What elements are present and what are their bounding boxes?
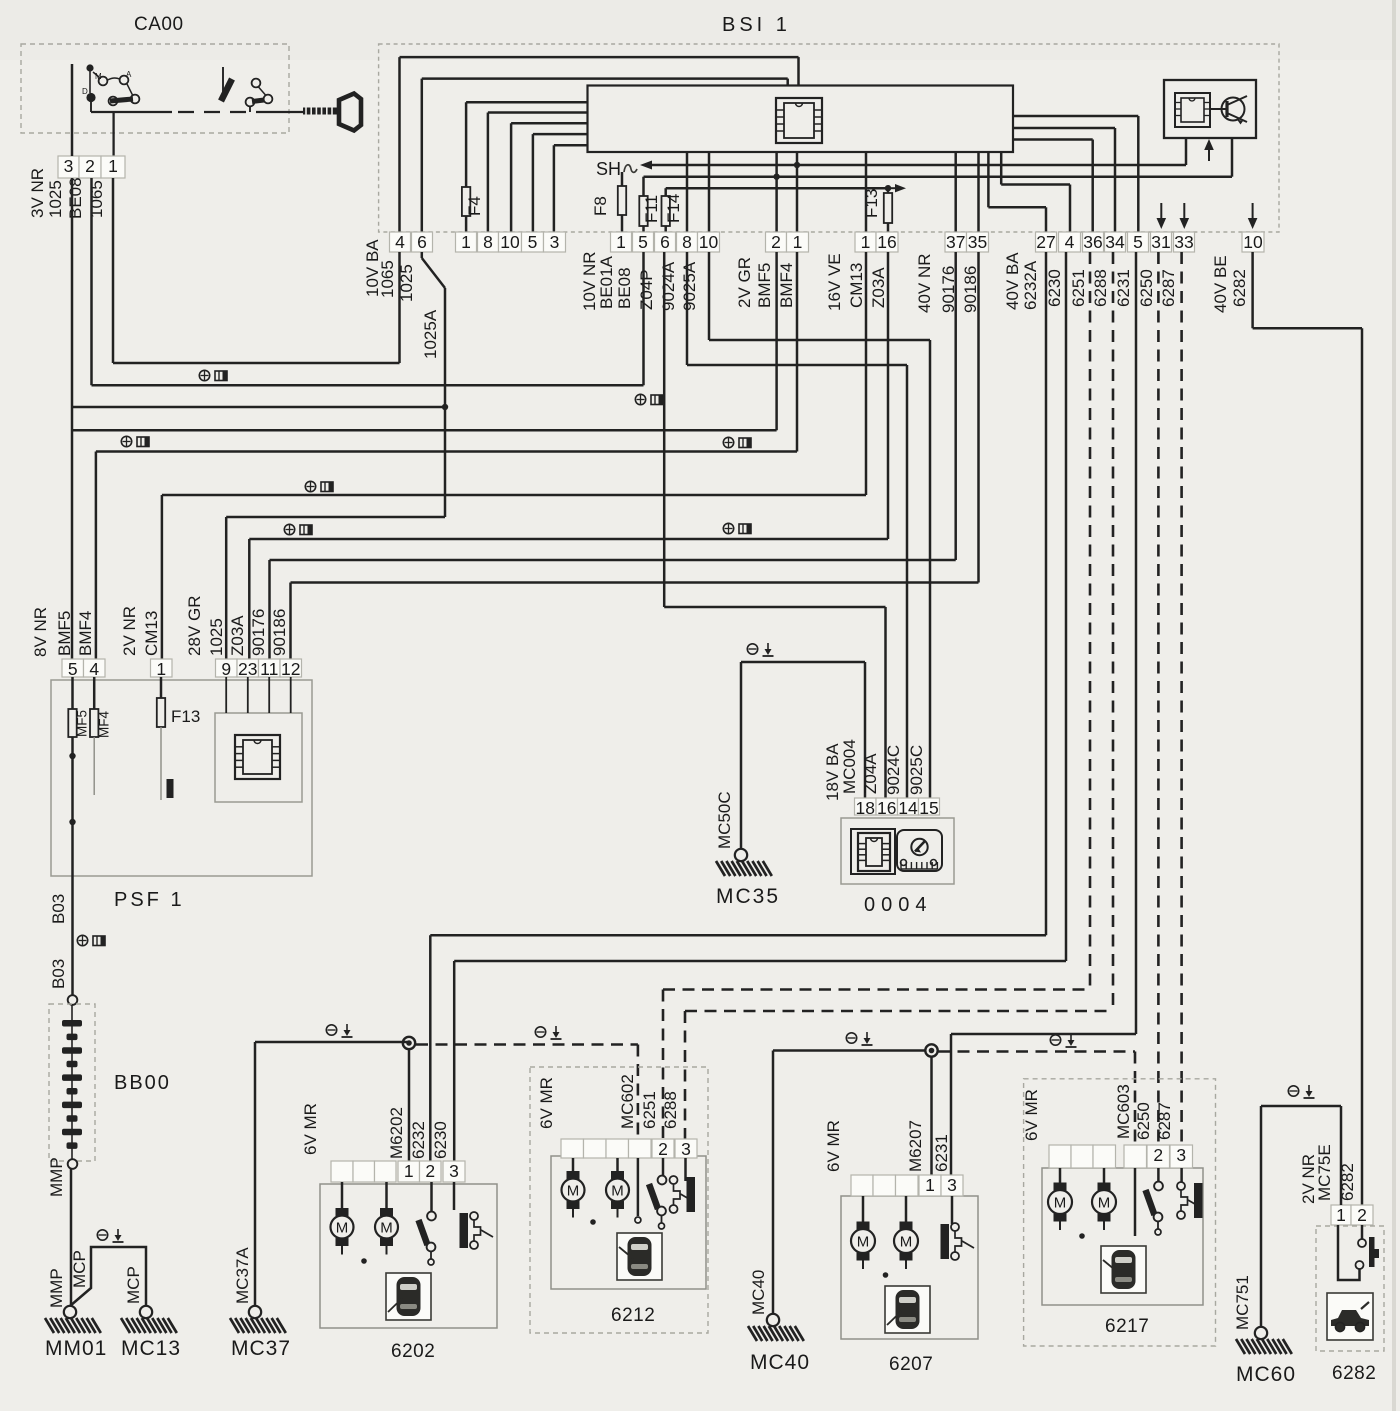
svg-text:2: 2 (85, 156, 95, 176)
svg-text:8V NR: 8V NR (31, 607, 50, 657)
svg-text:3: 3 (947, 1175, 957, 1195)
svg-text:BMF5: BMF5 (55, 611, 74, 656)
svg-text:MC35: MC35 (716, 885, 780, 908)
svg-text:6202: 6202 (391, 1341, 435, 1362)
svg-text:2: 2 (425, 1161, 435, 1181)
svg-text:6V MR: 6V MR (301, 1103, 320, 1155)
svg-text:6230: 6230 (1045, 269, 1064, 307)
svg-text:8: 8 (483, 232, 493, 252)
svg-text:9025C: 9025C (907, 745, 926, 795)
svg-text:BSI 1: BSI 1 (722, 14, 791, 36)
svg-text:M6202: M6202 (387, 1107, 406, 1159)
svg-text:6V MR: 6V MR (1022, 1089, 1041, 1141)
svg-text:40V NR: 40V NR (915, 253, 934, 313)
svg-text:SH: SH (596, 159, 621, 179)
svg-text:BMF5: BMF5 (755, 263, 774, 308)
svg-text:1: 1 (861, 232, 871, 252)
svg-text:MM01: MM01 (45, 1337, 107, 1360)
svg-text:8: 8 (682, 232, 692, 252)
svg-text:15: 15 (919, 798, 938, 818)
svg-text:9025A: 9025A (680, 261, 699, 311)
svg-text:Z04A: Z04A (861, 753, 880, 794)
svg-text:33: 33 (1174, 232, 1193, 252)
svg-text:9024A: 9024A (659, 261, 678, 311)
svg-text:36: 36 (1083, 232, 1102, 252)
svg-text:6288: 6288 (1091, 269, 1110, 307)
svg-text:5: 5 (528, 232, 538, 252)
svg-text:M: M (1098, 1195, 1111, 1212)
svg-text:5: 5 (68, 659, 78, 679)
svg-text:1: 1 (156, 659, 166, 679)
svg-text:F4: F4 (465, 196, 484, 216)
svg-text:M6207: M6207 (906, 1120, 925, 1172)
svg-text:11: 11 (260, 659, 278, 679)
svg-text:6231: 6231 (1114, 269, 1133, 307)
svg-text:MC40: MC40 (750, 1351, 810, 1374)
svg-text:9: 9 (221, 659, 231, 679)
svg-text:Z03A: Z03A (228, 615, 247, 656)
svg-text:MMP: MMP (47, 1268, 66, 1308)
svg-text:6232: 6232 (409, 1121, 428, 1159)
svg-text:F8: F8 (591, 196, 610, 216)
svg-text:1025: 1025 (46, 180, 65, 218)
svg-text:40V BE: 40V BE (1211, 255, 1230, 313)
svg-text:6212: 6212 (611, 1305, 655, 1326)
svg-text:CM13: CM13 (847, 263, 866, 308)
svg-text:MC37: MC37 (231, 1337, 291, 1360)
svg-text:6231: 6231 (932, 1134, 951, 1172)
svg-text:B03: B03 (49, 959, 68, 989)
svg-text:1: 1 (108, 156, 118, 176)
svg-text:F11: F11 (642, 195, 661, 223)
svg-text:90186: 90186 (270, 609, 289, 656)
svg-text:0004: 0004 (864, 894, 933, 916)
svg-text:MC75E: MC75E (1315, 1144, 1334, 1201)
svg-text:PSF 1: PSF 1 (114, 889, 185, 911)
svg-text:3: 3 (449, 1161, 459, 1181)
svg-text:M: M (95, 72, 102, 81)
svg-text:6250: 6250 (1137, 269, 1156, 307)
svg-text:6287: 6287 (1159, 269, 1178, 307)
svg-text:10: 10 (699, 232, 719, 252)
svg-text:2: 2 (658, 1139, 668, 1159)
svg-text:31: 31 (1151, 232, 1170, 252)
svg-text:27: 27 (1036, 232, 1055, 252)
svg-text:F14: F14 (664, 194, 683, 223)
svg-text:9024C: 9024C (884, 745, 903, 795)
svg-text:6230: 6230 (431, 1121, 450, 1159)
svg-text:6250: 6250 (1134, 1102, 1153, 1140)
svg-text:6282: 6282 (1332, 1363, 1376, 1384)
svg-text:M: M (336, 1220, 349, 1237)
svg-text:2V GR: 2V GR (735, 257, 754, 308)
svg-text:35: 35 (968, 232, 987, 252)
svg-text:5: 5 (638, 232, 648, 252)
svg-text:3: 3 (681, 1139, 691, 1159)
svg-text:90176: 90176 (249, 609, 268, 656)
svg-text:1: 1 (1336, 1205, 1346, 1225)
svg-text:M: M (900, 1234, 913, 1251)
svg-text:1025A: 1025A (421, 309, 440, 359)
svg-text:2: 2 (1357, 1205, 1367, 1225)
svg-text:MC37A: MC37A (233, 1247, 252, 1304)
svg-text:BMF4: BMF4 (777, 263, 796, 308)
svg-text:MC13: MC13 (121, 1337, 181, 1360)
svg-text:4: 4 (89, 659, 99, 679)
svg-text:16: 16 (877, 232, 896, 252)
svg-text:M: M (1054, 1195, 1067, 1212)
svg-text:2: 2 (771, 232, 781, 252)
svg-text:6287: 6287 (1155, 1102, 1174, 1140)
svg-text:6: 6 (660, 232, 670, 252)
svg-text:M: M (857, 1234, 870, 1251)
svg-text:18: 18 (856, 798, 875, 818)
svg-text:3: 3 (1176, 1145, 1186, 1165)
svg-text:6251: 6251 (640, 1091, 659, 1129)
svg-text:MC60: MC60 (1236, 1363, 1296, 1386)
svg-text:MCP: MCP (124, 1266, 143, 1304)
svg-text:M: M (611, 1183, 624, 1200)
svg-text:3V NR: 3V NR (28, 168, 47, 218)
svg-text:4: 4 (395, 232, 405, 252)
svg-text:2V NR: 2V NR (120, 606, 139, 656)
svg-text:M: M (380, 1220, 393, 1237)
svg-text:34: 34 (1105, 232, 1125, 252)
svg-text:A: A (126, 70, 132, 79)
svg-text:MF5: MF5 (75, 710, 90, 737)
svg-text:CA00: CA00 (134, 14, 184, 35)
svg-text:MC50C: MC50C (715, 791, 734, 849)
svg-text:6251: 6251 (1069, 269, 1088, 307)
svg-text:10: 10 (1243, 232, 1263, 252)
svg-text:M: M (567, 1183, 580, 1200)
svg-text:1: 1 (461, 232, 471, 252)
svg-text:1: 1 (793, 232, 803, 252)
svg-text:MC603: MC603 (1114, 1084, 1133, 1139)
svg-text:12: 12 (281, 659, 300, 679)
svg-text:6V MR: 6V MR (824, 1120, 843, 1172)
svg-text:1025: 1025 (207, 618, 226, 656)
svg-text:6: 6 (417, 232, 427, 252)
svg-text:6217: 6217 (1105, 1316, 1149, 1337)
svg-text:MF4: MF4 (97, 711, 112, 738)
svg-text:1065: 1065 (87, 180, 106, 218)
svg-text:BE08: BE08 (66, 177, 85, 219)
svg-text:1: 1 (616, 232, 626, 252)
svg-text:16V VE: 16V VE (825, 253, 844, 311)
svg-text:6288: 6288 (661, 1091, 680, 1129)
svg-text:BE01A: BE01A (597, 255, 616, 309)
svg-text:2: 2 (1153, 1145, 1163, 1165)
svg-text:10: 10 (500, 232, 520, 252)
svg-text:MC40: MC40 (749, 1270, 768, 1315)
svg-text:MC751: MC751 (1233, 1275, 1252, 1330)
svg-text:CM13: CM13 (142, 611, 161, 656)
svg-text:1: 1 (925, 1175, 935, 1195)
svg-text:BE08: BE08 (615, 267, 634, 309)
svg-text:MC602: MC602 (618, 1074, 637, 1129)
svg-text:Z03A: Z03A (869, 267, 888, 308)
svg-text:BMF4: BMF4 (76, 611, 95, 656)
svg-text:MMP: MMP (47, 1157, 66, 1197)
svg-text:D: D (82, 87, 88, 96)
svg-text:6282: 6282 (1230, 269, 1249, 307)
svg-text:3: 3 (550, 232, 560, 252)
svg-text:37: 37 (946, 232, 965, 252)
svg-text:3: 3 (64, 156, 74, 176)
svg-text:F13: F13 (171, 707, 200, 726)
svg-text:23: 23 (238, 659, 257, 679)
svg-text:90186: 90186 (961, 266, 980, 313)
svg-text:MCP: MCP (70, 1250, 89, 1288)
svg-text:6232A: 6232A (1021, 260, 1040, 310)
svg-text:28V GR: 28V GR (185, 596, 204, 656)
svg-text:Z04P: Z04P (637, 269, 656, 310)
svg-text:MC004: MC004 (840, 739, 859, 794)
svg-text:6207: 6207 (889, 1354, 933, 1375)
svg-text:6V MR: 6V MR (537, 1077, 556, 1129)
svg-text:BB00: BB00 (114, 1072, 171, 1094)
svg-text:B03: B03 (49, 894, 68, 924)
svg-text:16: 16 (877, 798, 896, 818)
svg-text:5: 5 (1133, 232, 1143, 252)
svg-text:14: 14 (898, 798, 918, 818)
svg-text:1: 1 (404, 1161, 414, 1181)
svg-text:4: 4 (1065, 232, 1075, 252)
svg-text:1065: 1065 (378, 260, 397, 298)
svg-text:40V BA: 40V BA (1003, 252, 1022, 310)
